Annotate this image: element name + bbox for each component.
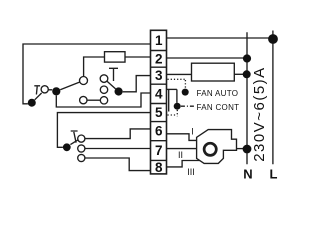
junction dot D2 (52, 87, 60, 95)
contact C4 (100, 86, 107, 93)
jumper to FAN CONT dot (176, 89, 178, 103)
wire terminal 5 to fan switch common (57, 113, 150, 148)
lever fan switch (70, 140, 78, 145)
thermostat T1 actuator (34, 86, 40, 95)
contact C3 (100, 75, 108, 83)
svg-text:FAN AUTO: FAN AUTO (197, 89, 239, 98)
wire terminal 6 to motor speed I (167, 134, 197, 141)
node FAN CONT dot (174, 103, 181, 110)
wire C2 up to resistor R1 (84, 57, 105, 77)
svg-text:5: 5 (155, 105, 163, 120)
svg-text:230V~6(5)A: 230V~6(5)A (251, 66, 268, 161)
svg-text:6: 6 (155, 124, 163, 139)
wire D3 to terminal 3 (123, 76, 151, 92)
lever switch 3 (107, 81, 116, 89)
contact fan speed 2 (78, 145, 85, 152)
wire R2 to N rail (234, 73, 247, 75)
svg-text:II: II (178, 150, 183, 160)
resistor R1 (left box) (105, 52, 126, 62)
motor M1 body (197, 130, 237, 164)
terminal block inner borders (151, 51, 167, 161)
motor M1 winding circle (204, 143, 216, 155)
contact fan speed 1 (78, 135, 85, 142)
svg-text:2: 2 (155, 51, 163, 66)
junction dot N top (243, 54, 251, 62)
contact C6 (100, 97, 107, 104)
junction dot motor/N (243, 145, 252, 154)
dotted wire terminal 5 to FAN CONT (168, 110, 178, 117)
svg-text:III: III (187, 167, 195, 177)
lever thermostat switch 1 (35, 93, 42, 100)
dotted wire terminal 3 to FAN AUTO (168, 79, 186, 88)
wire C5 to C6 (87, 99, 100, 101)
thermostat T2 actuator (109, 68, 118, 81)
svg-text:I: I (191, 127, 194, 137)
junction dot D3 (115, 87, 123, 95)
contact fan speed 3 (78, 154, 85, 161)
svg-text:FAN CONT: FAN CONT (197, 103, 240, 112)
wire N rail (246, 32, 248, 164)
wire motor to N rail (237, 148, 248, 150)
junction dot L (268, 34, 278, 44)
terminal block outline (151, 30, 167, 174)
junction dot D1 thermostat common (28, 99, 36, 107)
svg-text:8: 8 (155, 160, 163, 175)
terminal numbers 1-8 (155, 33, 163, 175)
svg-text:1: 1 (155, 33, 163, 48)
wire terminal 3 to R2 (167, 73, 192, 75)
contact C5 (80, 96, 87, 103)
junction dot fan common (63, 143, 71, 151)
wire L rail (272, 31, 274, 165)
wire terminal 8 to motor speed III (167, 161, 200, 167)
wire R1 to terminal 2 (125, 56, 151, 58)
wire fan speed 3 to terminal 8 (85, 158, 151, 171)
wire fan speed 1 to terminal 6 (85, 129, 151, 139)
wire C1 to D2 (48, 89, 52, 91)
contact C2 (80, 77, 88, 85)
resistor R2 (right box) (192, 63, 235, 81)
wire terminal 2 to N rail (167, 57, 248, 59)
svg-text:3: 3 (155, 68, 163, 83)
wire L supply to thermostat common (top-left L shape) (23, 44, 151, 104)
wire D2 to terminal 4 (U path) (56, 93, 150, 107)
svg-text:4: 4 (155, 86, 163, 101)
wire fan speed 2 to terminal 7 (85, 148, 151, 150)
svg-text:L: L (270, 167, 278, 182)
dash-dot link to FAN CONT label (181, 105, 196, 107)
svg-text:N: N (243, 167, 252, 182)
wire terminal 7 to motor speed II (167, 148, 197, 150)
lever switch 2 (60, 82, 80, 90)
wire L top (terminal 1 to L rail) (167, 37, 273, 39)
node FAN AUTO dot (182, 89, 189, 96)
junction dot R2/N (243, 70, 251, 78)
jumper drop wire (168, 89, 170, 111)
jumper wire terminal 4 right (167, 88, 177, 90)
svg-text:7: 7 (155, 143, 163, 158)
contact C1 (41, 86, 48, 93)
fan switch knob T3 (71, 131, 78, 143)
